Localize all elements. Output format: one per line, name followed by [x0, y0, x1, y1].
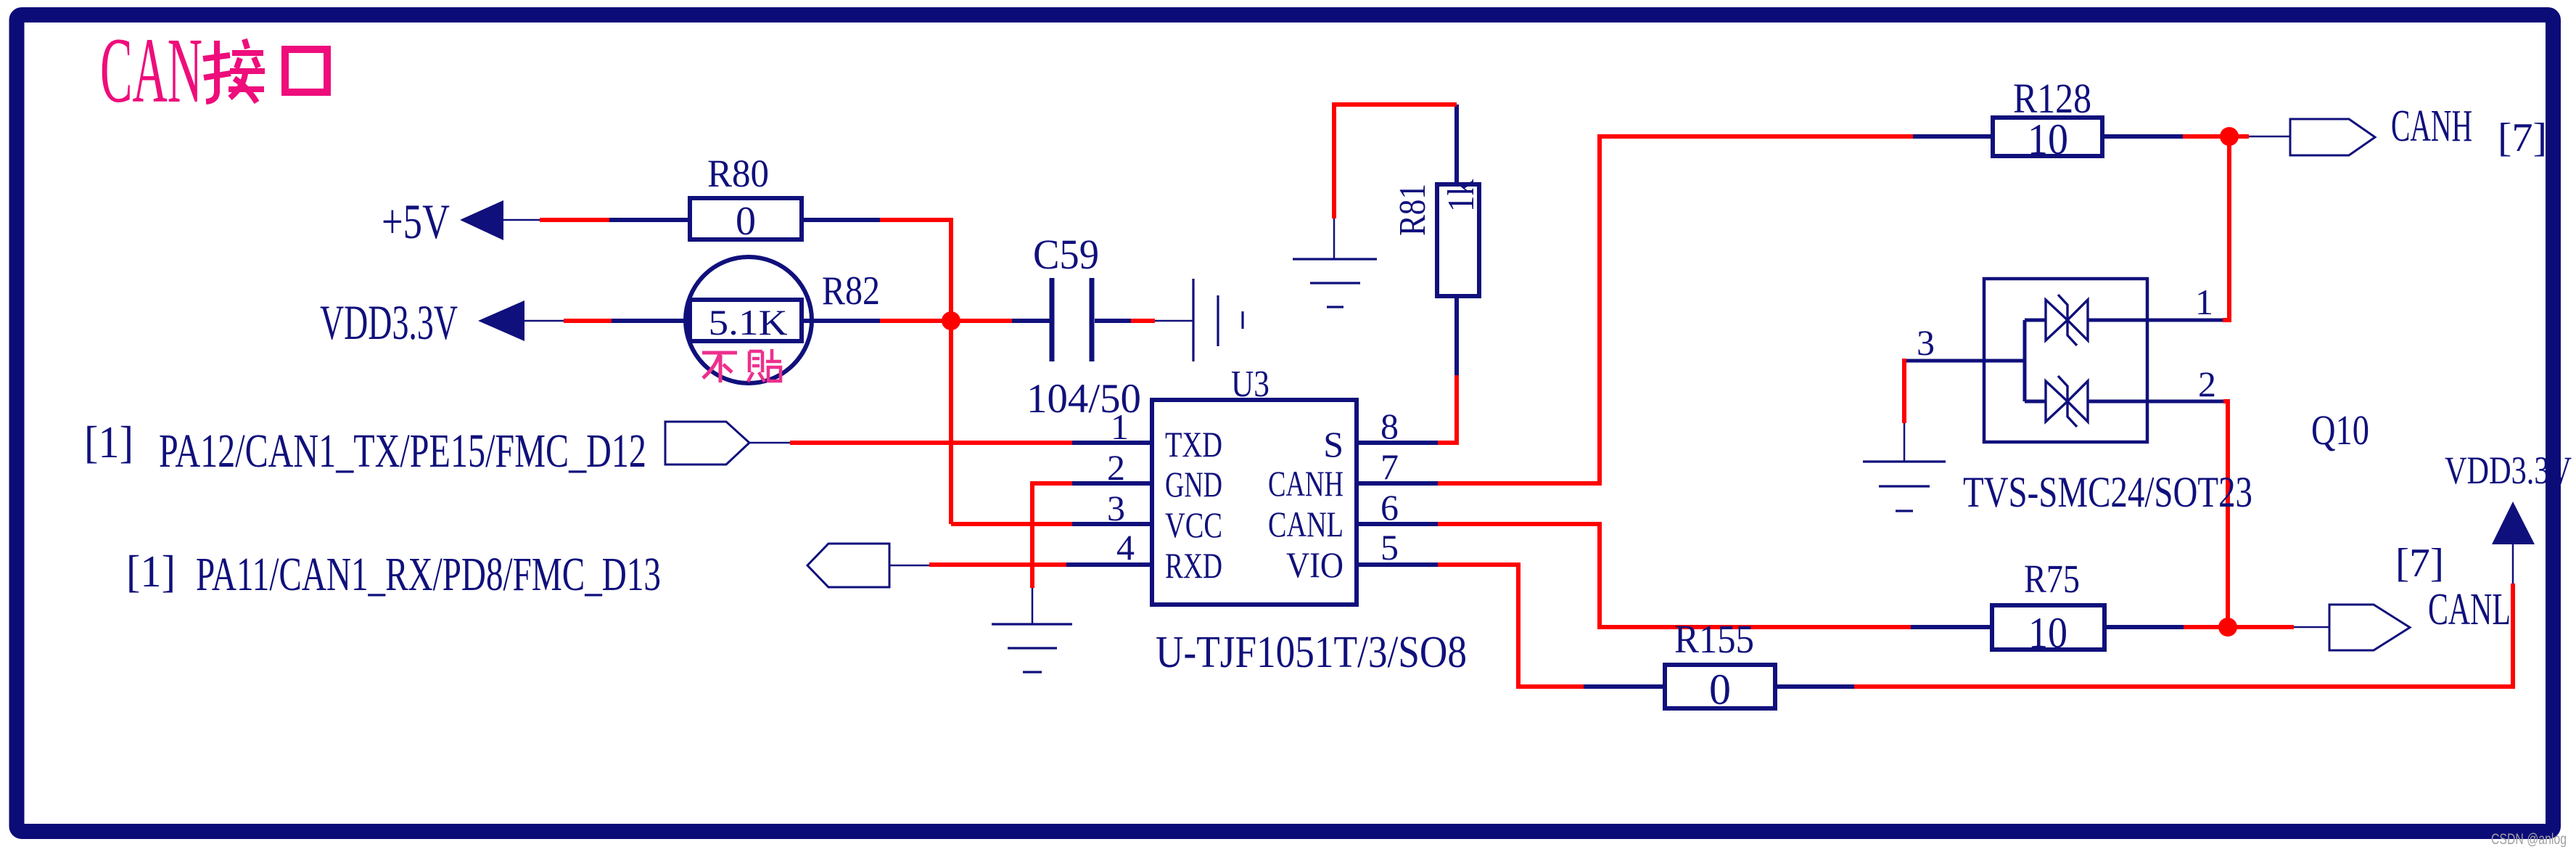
wire ground stub (thin)	[1333, 218, 1336, 259]
wire pin3 red segment down	[1902, 359, 1906, 423]
title hanzi JIE (接)	[203, 39, 265, 102]
wire to lower diode	[2025, 400, 2046, 404]
svg-text:U3: U3	[1231, 364, 1270, 405]
svg-text:8: 8	[1380, 406, 1399, 446]
sheet title: CAN interface	[100, 19, 202, 122]
power +5V arrow	[460, 200, 503, 240]
svg-text:VDD3.3V: VDD3.3V	[320, 295, 458, 350]
wire VIO to R155	[1584, 684, 1665, 689]
wire TXD stub (thin)	[749, 442, 790, 444]
svg-text:R81: R81	[1392, 184, 1433, 236]
svg-text:1: 1	[2195, 282, 2213, 322]
wire +5V to R80	[609, 218, 690, 222]
svg-text:1: 1	[1111, 406, 1129, 447]
svg-text:S: S	[1323, 424, 1343, 465]
wire GND ground stub (thin)	[1032, 588, 1034, 624]
port CANH	[2290, 119, 2375, 155]
wire TXD red segment	[790, 441, 1072, 445]
wire CANH red run up and right	[1438, 136, 1913, 483]
svg-text:10: 10	[2028, 115, 2068, 163]
TVS diode D2 (lower)	[2046, 376, 2088, 427]
svg-text:[1]: [1]	[126, 547, 176, 597]
wire U3 pin6 CANL	[1357, 522, 1438, 526]
wire CANL port stub (thin)	[2294, 626, 2329, 629]
svg-text:CANL: CANL	[2428, 585, 2511, 634]
svg-text:3: 3	[1107, 488, 1125, 528]
svg-text:CANH: CANH	[2391, 102, 2472, 151]
wire R155 right	[1775, 684, 1854, 689]
port CANL	[2329, 605, 2410, 650]
svg-text:[7]: [7]	[2498, 115, 2547, 160]
svg-text:C59: C59	[1033, 231, 1099, 278]
svg-text:GND: GND	[1165, 464, 1222, 504]
svg-text:[7]: [7]	[2395, 541, 2444, 586]
wire VDD3.3V to R82	[612, 319, 690, 323]
power VDD3.3V arrow (right)	[2492, 502, 2535, 544]
wire vertical +5V node to VCC row (red)	[949, 218, 953, 524]
wire RXD red segment	[929, 562, 1066, 567]
svg-text:CANH: CANH	[1268, 463, 1343, 504]
svg-text:3: 3	[1917, 322, 1935, 363]
resistor R81 body (vertical)	[1437, 184, 1479, 296]
TVS array Q10 body	[1984, 279, 2147, 442]
wire Q10 pin3 internal	[1904, 359, 2025, 363]
svg-text:RXD: RXD	[1165, 545, 1222, 586]
wire Q10 internal vertical	[2023, 320, 2027, 401]
wire junction red segment	[2183, 134, 2249, 139]
wire VDD3.3V stub (thin)	[2512, 544, 2514, 584]
wire upper diode to pin1	[2088, 319, 2223, 322]
wire pin3 ground stub (thin)	[1904, 423, 1906, 462]
svg-text:6: 6	[1380, 487, 1399, 528]
wire R80 to node	[802, 218, 880, 222]
svg-text:4: 4	[1116, 527, 1135, 568]
svg-text:TXD: TXD	[1165, 424, 1222, 465]
svg-text:0: 0	[736, 199, 756, 244]
title hanzi KOU (口)	[285, 49, 327, 92]
wire C59 ground stub (thin)	[1155, 320, 1193, 322]
wire pin8 red elbow up	[1438, 375, 1457, 443]
ground (below Q10 pin3)	[1863, 462, 1946, 511]
svg-text:VCC: VCC	[1165, 504, 1222, 545]
wire pin2 red elbow down to CANL junction	[2223, 401, 2228, 623]
resistor R75 body	[1992, 605, 2104, 650]
wire R80 red segment to corner	[880, 218, 951, 222]
wire VCC row red segment	[951, 522, 1072, 526]
wire C59 ground red segment	[1131, 319, 1155, 323]
svg-text:CANL: CANL	[1268, 504, 1343, 544]
ground (rotated, right of C59)	[1193, 279, 1243, 361]
wire R81 top red elbow to ground	[1334, 105, 1457, 218]
wire junction red segment	[880, 319, 1012, 323]
wire R128 to junction	[2102, 134, 2183, 139]
svg-text:1k: 1k	[1441, 179, 1482, 212]
svg-text:R82: R82	[822, 269, 880, 314]
svg-text:R80: R80	[707, 152, 769, 195]
svg-text:2: 2	[2198, 364, 2216, 404]
svg-text:PA12/CAN1_TX/PE15/FMC_D12: PA12/CAN1_TX/PE15/FMC_D12	[159, 425, 646, 478]
wire GND pin2 red elbow	[1032, 483, 1072, 588]
wire U3 pin8 S	[1357, 441, 1438, 445]
svg-text:5: 5	[1380, 527, 1399, 568]
wire VDD3.3V stub (thin)	[524, 320, 564, 322]
sheet entry PA12 (output port)	[665, 422, 749, 465]
TVS diode D1 (upper)	[2046, 295, 2088, 345]
wire VIO red run down to R155	[1438, 565, 1584, 687]
wire RXD to U3 pin4	[1066, 562, 1152, 567]
wire VCC to U3 pin3	[1072, 522, 1152, 526]
svg-text:TVS-SMC24/SOT23: TVS-SMC24/SOT23	[1963, 468, 2252, 516]
power VDD3.3V arrow	[478, 300, 524, 341]
sheet entry PA11 (input port)	[807, 544, 889, 587]
wire R81 top lead	[1454, 105, 1459, 184]
wire RXD stub (thin)	[889, 565, 929, 567]
junction node CANL (red dot)	[2218, 618, 2237, 637]
resistor R155 body	[1665, 665, 1775, 708]
wire CANH to R128	[1913, 134, 1993, 139]
wire node to C59	[1012, 319, 1050, 323]
wire CANH port stub (thin)	[2249, 136, 2290, 138]
wire TXD to U3 pin1	[1072, 441, 1152, 445]
wire junction red segment	[2184, 625, 2294, 629]
svg-text:0: 0	[1709, 666, 1731, 713]
wire R81 bottom lead	[1454, 296, 1459, 375]
ground (below U3)	[992, 624, 1072, 672]
wire CANL red run down and right	[1438, 524, 1911, 627]
svg-text:Q10: Q10	[2311, 406, 2369, 454]
svg-text:U-TJF1051T/3/SO8: U-TJF1051T/3/SO8	[1156, 628, 1467, 677]
wire lower diode to pin2	[2088, 400, 2223, 404]
wire VDD3.3V red segment	[564, 319, 612, 323]
wire R82 to junction	[802, 319, 880, 323]
svg-text:R75: R75	[2024, 557, 2080, 601]
svg-text:2: 2	[1107, 447, 1125, 488]
wire U3 pin7 CANH	[1357, 481, 1438, 486]
svg-text:PA11/CAN1_RX/PD8/FMC_D13: PA11/CAN1_RX/PD8/FMC_D13	[196, 548, 661, 601]
svg-text:VIO: VIO	[1286, 544, 1343, 585]
svg-text:5.1K: 5.1K	[709, 302, 788, 343]
op IC U3 body (CAN transceiver)	[1152, 400, 1357, 605]
capacitor C59 plates	[1052, 278, 1092, 361]
svg-text:CSDN @anlog: CSDN @anlog	[2491, 831, 2567, 847]
wire U3 pin5 VIO	[1357, 562, 1438, 567]
resistor R82 body	[690, 300, 802, 341]
svg-text:7: 7	[1380, 446, 1399, 487]
wire +5V stub (thin)	[503, 219, 540, 221]
wire C59 to ground	[1095, 319, 1131, 323]
label BUTIE (贴) no-fit marking	[748, 349, 781, 382]
svg-text:10: 10	[2028, 609, 2067, 657]
wire GND to U3 pin2	[1072, 481, 1152, 486]
DNP circle around R82	[686, 257, 812, 383]
wire R155 red rail to VDD3.3V	[1854, 584, 2513, 687]
svg-text:R155: R155	[1674, 617, 1754, 661]
svg-text:CAN: CAN	[100, 19, 202, 122]
wire R75 to junction	[2104, 625, 2184, 629]
ground (left of R81)	[1293, 259, 1377, 307]
wire to upper diode	[2025, 319, 2046, 322]
junction node CANH (red dot)	[2220, 127, 2239, 146]
svg-text:+5V: +5V	[382, 194, 450, 249]
svg-text:[1]: [1]	[84, 418, 133, 467]
resistor R80 body	[690, 198, 802, 240]
junction node (red dot)	[942, 311, 960, 330]
label BUTIE (不) no-fit marking	[702, 353, 737, 382]
wire CANL to R75	[1911, 625, 1992, 629]
wire CANH down to TVS pin1 (red)	[2223, 136, 2229, 320]
resistor R128 body	[1993, 118, 2102, 156]
wire +5V red segment	[540, 218, 609, 222]
